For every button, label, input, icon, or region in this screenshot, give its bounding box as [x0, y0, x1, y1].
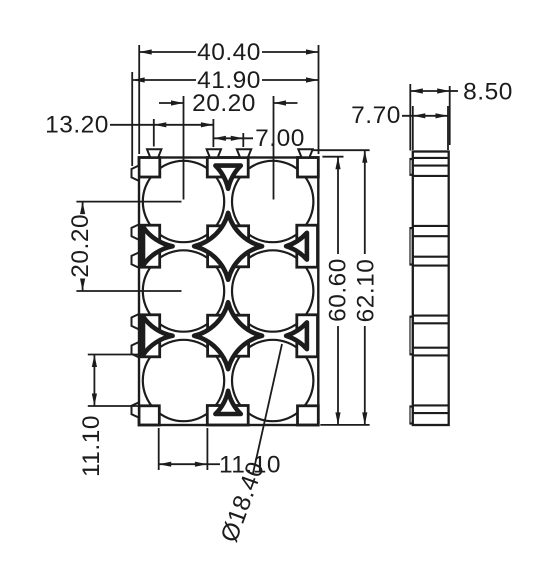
side view rib line: [413, 412, 449, 414]
side view body: [413, 152, 449, 426]
dim 11.10 bottom ext lines: [159, 428, 208, 470]
edge web left: [143, 316, 173, 355]
side view rib line: [413, 175, 449, 177]
dim 13.20 label: [45, 111, 109, 138]
svg-text:11.10: 11.10: [78, 415, 105, 477]
dim 62.10 line: [362, 150, 367, 425]
dim 11.10 left line: [92, 355, 97, 407]
dim 40.40 ext lines: [139, 45, 318, 154]
front view outline: [139, 158, 318, 426]
dim leader line: [253, 344, 282, 474]
mounting tab left: [132, 314, 140, 329]
mounting tab top: [237, 149, 251, 157]
cell bore circle mid-left: [143, 250, 224, 331]
edge block left: [140, 225, 160, 267]
mounting tab left: [132, 402, 140, 417]
mounting tab left: [132, 166, 140, 181]
side view rib line: [413, 404, 449, 406]
mounting tab left: [132, 252, 140, 267]
cell bore circle bottom-right: [232, 340, 313, 421]
svg-text:7.00: 7.00: [255, 125, 305, 152]
dim 60.60 ext lines: [320, 157, 369, 425]
dim 62.10 label: [352, 259, 379, 323]
corner block top-left: [139, 158, 160, 178]
dim 8.50 line: [410, 88, 458, 93]
interior block: [208, 315, 249, 356]
dim diameter label: [216, 458, 270, 546]
web triangle bottom-middle: [215, 391, 240, 414]
dim 7.70 ext lines: [413, 106, 448, 150]
edge web right: [286, 233, 307, 260]
dim 7.70 label: [351, 102, 401, 129]
edge block top-middle: [207, 158, 248, 178]
dim 40.40 line: [139, 49, 318, 54]
dim 20.20 ext lines: [184, 96, 274, 200]
corner block bottom-left: [139, 406, 159, 425]
edge web left: [143, 227, 173, 266]
web triangle top-middle: [215, 166, 240, 189]
svg-text:20.20: 20.20: [192, 90, 256, 117]
dim 11.10 bottom label: [219, 452, 281, 479]
dim 62.10 ext line: [312, 149, 370, 151]
svg-text:8.50: 8.50: [463, 79, 513, 106]
dim 20.20 left line: [80, 202, 85, 291]
svg-text:13.20: 13.20: [45, 111, 109, 138]
dim 13.20 line: [110, 122, 213, 127]
corner block top-right: [298, 158, 319, 178]
cell bore circle bottom-left: [143, 340, 224, 421]
mounting tab top: [147, 149, 161, 157]
dim 11.10 left label: [78, 415, 105, 477]
svg-text:7.70: 7.70: [351, 102, 401, 129]
edge block right: [297, 225, 318, 267]
cell bore circle top-left: [143, 161, 224, 242]
side view rib line: [413, 322, 449, 324]
dim 20.20 left ext lines: [76, 202, 181, 291]
side view tab: [409, 316, 413, 356]
side view tab: [409, 158, 413, 176]
dim 20.20 label: [192, 90, 256, 117]
side view tab: [409, 405, 413, 424]
dim 8.50 ext lines: [410, 84, 449, 151]
mounting tab top: [207, 149, 221, 157]
mounting tab left: [132, 342, 140, 357]
dim 60.60 label: [325, 258, 352, 322]
dim 7.00 label: [255, 125, 305, 152]
svg-text:40.40: 40.40: [197, 39, 261, 66]
interior web star: [194, 213, 262, 280]
dim 20.20 line: [159, 100, 298, 105]
dim 41.90 label: [197, 67, 261, 94]
side view rib line: [413, 165, 449, 167]
dim 60.60 line: [335, 157, 340, 425]
dim 11.10 left ext lines: [88, 355, 141, 407]
interior block: [208, 226, 249, 267]
edge block bottom-middle: [207, 406, 248, 426]
dim 41.90 ext line: [131, 72, 133, 166]
side view tab: [409, 227, 413, 266]
svg-text:60.60: 60.60: [325, 258, 352, 322]
dim 40.40 label: [197, 39, 261, 66]
edge block left: [140, 315, 160, 357]
dim 13.20 ext line: [153, 119, 155, 147]
edge web right: [286, 322, 307, 349]
dim 41.90 line: [132, 77, 318, 82]
interior web star: [194, 302, 262, 369]
side view rib line: [413, 315, 449, 317]
dim 7.00 ext lines: [213, 119, 243, 147]
svg-text:20.20: 20.20: [67, 214, 94, 278]
mounting tab left: [132, 224, 140, 239]
cell bore circle top-right: [232, 161, 313, 242]
side view rib line: [413, 265, 449, 267]
side view rib line: [413, 354, 449, 356]
dim 11.10 bottom line: [159, 462, 220, 467]
svg-text:62.10: 62.10: [352, 259, 379, 323]
side view rib line: [413, 256, 449, 258]
side view rib line: [413, 347, 449, 349]
side view rib line: [413, 235, 449, 237]
dim 8.50 label: [463, 79, 513, 106]
dim 7.70 line: [402, 113, 448, 118]
cell bore circle mid-right: [232, 250, 313, 331]
edge block right: [297, 315, 318, 357]
corner block bottom-right: [298, 406, 319, 425]
dim 7.00 line: [213, 136, 253, 141]
dim 20.20 left label: [67, 214, 94, 278]
front view body edge: [139, 158, 318, 426]
mounting tab top: [298, 149, 312, 157]
side view rib line: [413, 157, 449, 159]
side view rib line: [413, 225, 449, 227]
